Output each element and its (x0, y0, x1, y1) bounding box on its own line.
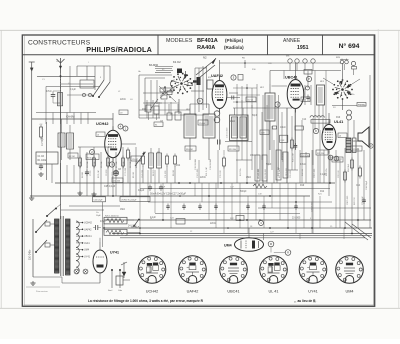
svg-text:C1 50pF: C1 50pF (42, 137, 44, 146)
svg-text:R11 0,1M: R11 0,1M (206, 167, 208, 176)
svg-text:UY41: UY41 (84, 256, 91, 259)
svg-text:R9 50k: R9 50k (130, 160, 132, 168)
svg-text:UCH42: UCH42 (146, 290, 158, 294)
svg-text:UCH42: UCH42 (96, 122, 108, 126)
svg-text:R3 0,1M: R3 0,1M (98, 170, 100, 178)
svg-text:C16 10.000: C16 10.000 (227, 127, 229, 138)
svg-text:10kΩ: 10kΩ (336, 159, 342, 161)
svg-text:R12: R12 (176, 165, 181, 167)
svg-text:C18 5.000: C18 5.000 (258, 168, 260, 178)
svg-text:K3: K3 (165, 90, 167, 92)
svg-text:50pF: 50pF (266, 164, 272, 166)
svg-text:C14: C14 (356, 185, 361, 187)
svg-text:R24 1kΩ: R24 1kΩ (348, 163, 350, 172)
svg-text:UCH42 Ec=100μF: UCH42 Ec=100μF (121, 199, 137, 201)
svg-text:(Philips): (Philips) (225, 38, 244, 43)
svg-text:220Ω: 220Ω (120, 99, 126, 101)
svg-text:C1 1R: C1 1R (38, 156, 45, 158)
svg-text:Rx: Rx (352, 94, 354, 96)
svg-text:RA40A: RA40A (197, 45, 215, 51)
svg-text:R13 50k: R13 50k (229, 149, 236, 151)
svg-text:47kΩ: 47kΩ (46, 91, 52, 93)
svg-text:500pF: 500pF (240, 191, 247, 193)
svg-text:N2: N2 (203, 56, 207, 60)
svg-text:R18 0,5M: R18 0,5M (293, 153, 295, 162)
svg-text:C14: C14 (302, 119, 307, 121)
svg-text:MS: MS (286, 56, 290, 58)
svg-text:R18 1M: R18 1M (302, 169, 304, 176)
svg-text:R23 150: R23 150 (354, 197, 356, 205)
svg-text:R1 100k: R1 100k (38, 160, 47, 162)
svg-text:C23 100: C23 100 (338, 170, 340, 178)
svg-text:R4 27k: R4 27k (112, 172, 114, 178)
svg-text:R3 50k: R3 50k (87, 160, 89, 168)
svg-text:UCH42: UCH42 (84, 222, 93, 225)
svg-text:M: M (270, 242, 272, 246)
svg-text:C18 20.000: C18 20.000 (265, 169, 267, 179)
svg-text:C11 200: C11 200 (165, 170, 167, 178)
svg-text:0,1μF: 0,1μF (150, 217, 157, 219)
svg-text:C13 10.000: C13 10.000 (210, 158, 212, 170)
svg-text:C25 0,1μF: C25 0,1μF (104, 185, 116, 188)
svg-text:C11 200: C11 200 (113, 180, 120, 182)
svg-text:500pF: 500pF (352, 141, 359, 143)
svg-text:R16 0,5M: R16 0,5M (278, 167, 280, 176)
svg-text:UL41: UL41 (84, 242, 90, 245)
svg-text:K1 K2: K1 K2 (173, 60, 181, 64)
svg-text:CA 6M: CA 6M (66, 115, 75, 119)
svg-text:220Ω: 220Ω (200, 177, 206, 179)
svg-text:(Radiola): (Radiola) (224, 45, 244, 50)
svg-text:50mA E=6,3V C26+C27 2×50μF: 50mA E=6,3V C26+C27 2×50μF (150, 193, 186, 196)
svg-text:R8 50k: R8 50k (123, 160, 125, 168)
svg-text:R13 50k: R13 50k (240, 169, 242, 176)
svg-text:UL41: UL41 (334, 120, 343, 124)
svg-text:UAF42: UAF42 (84, 228, 92, 231)
svg-text:C12 5.000: C12 5.000 (197, 168, 199, 178)
svg-text:UY41: UY41 (308, 290, 318, 294)
svg-text:R7 50k: R7 50k (116, 160, 118, 168)
svg-text:47kΩ: 47kΩ (300, 164, 306, 166)
svg-text:C10 47: C10 47 (132, 159, 138, 161)
svg-text:C: C (199, 99, 201, 103)
svg-text:PHILIPS/RADIOLA: PHILIPS/RADIOLA (86, 45, 152, 54)
svg-text:C7 5.000: C7 5.000 (125, 167, 127, 176)
svg-text:R2 50k: R2 50k (80, 160, 82, 168)
svg-text:C17 25: C17 25 (247, 99, 253, 101)
svg-text:ANNEE: ANNEE (283, 38, 301, 44)
svg-text:L3: L3 (97, 134, 99, 136)
svg-text:R6 27k: R6 27k (153, 170, 155, 176)
svg-text:C30 50μF: C30 50μF (366, 180, 368, 190)
svg-text:C22 5.000: C22 5.000 (314, 168, 316, 178)
svg-text:C9 5.000: C9 5.000 (142, 169, 144, 178)
svg-text:R20 25k: R20 25k (326, 169, 328, 176)
svg-text:C5 50: C5 50 (90, 170, 92, 176)
svg-text:R9 1M: R9 1M (173, 170, 175, 176)
svg-text:C9: C9 (120, 112, 122, 114)
svg-text:C15 100: C15 100 (220, 170, 222, 178)
svg-text:C25 0,5μF: C25 0,5μF (94, 200, 104, 202)
svg-text:C18: C18 (261, 132, 264, 134)
svg-text:10kΩ: 10kΩ (280, 127, 286, 129)
svg-text:MODELES: MODELES (166, 38, 193, 44)
svg-text:UBC41: UBC41 (84, 235, 92, 238)
svg-text:UBC41: UBC41 (227, 290, 239, 294)
svg-text:W: W (304, 89, 306, 91)
svg-text:C28 5.000: C28 5.000 (347, 195, 349, 205)
svg-text:47kΩ: 47kΩ (100, 221, 106, 223)
svg-text:R10 2M: R10 2M (186, 149, 193, 151)
svg-text:R2 1M: R2 1M (69, 156, 75, 158)
svg-text:10μF: 10μF (96, 215, 101, 217)
svg-text:1MΩ: 1MΩ (250, 155, 255, 157)
svg-text:2MΩ: 2MΩ (230, 121, 235, 123)
svg-text:UAF42: UAF42 (211, 74, 223, 78)
svg-text:R25 1.000Ω 3w: R25 1.000Ω 3w (105, 216, 119, 218)
svg-text:R21 25k: R21 25k (317, 153, 324, 155)
svg-text:R12: R12 (142, 109, 147, 111)
svg-text:R: R (287, 251, 289, 255)
svg-text:R19: R19 (300, 185, 305, 187)
svg-text:FRENAL: FRENAL (358, 103, 365, 106)
svg-text:BF401A: BF401A (197, 38, 218, 44)
svg-text:UAF42: UAF42 (187, 290, 199, 294)
svg-text:220Ω: 220Ω (210, 223, 216, 225)
svg-text:UM4: UM4 (84, 249, 90, 252)
svg-text:Secl: Secl (108, 290, 113, 292)
svg-text:R19: R19 (336, 117, 341, 119)
svg-text:0,1μF: 0,1μF (138, 189, 145, 192)
svg-text:23 L905: 23 L905 (292, 218, 301, 220)
svg-text:UM4: UM4 (224, 244, 232, 248)
svg-text:R2 2M: R2 2M (82, 172, 84, 178)
svg-text:N° 694: N° 694 (339, 42, 360, 50)
svg-text:.: . (317, 299, 318, 303)
svg-text:C14 50: C14 50 (199, 123, 205, 125)
svg-text:C20 20.000: C20 20.000 (283, 151, 285, 162)
svg-text:50pF: 50pF (252, 115, 258, 117)
svg-text:0,5μF: 0,5μF (160, 187, 166, 189)
svg-text:0,1μF: 0,1μF (70, 89, 77, 91)
svg-text:C29 50μF: C29 50μF (362, 195, 364, 205)
svg-text:0,1μF: 0,1μF (320, 174, 327, 176)
svg-text:1MΩ: 1MΩ (120, 209, 125, 211)
svg-text:UY41: UY41 (110, 251, 119, 255)
svg-text:C12 10.000: C12 10.000 (195, 158, 197, 170)
svg-text:R5 50k: R5 50k (101, 160, 103, 168)
svg-text:CONSTRUCTEURS: CONSTRUCTEURS (28, 39, 91, 46)
svg-text:R12: R12 (320, 191, 325, 193)
svg-text:R23 150: R23 150 (352, 149, 359, 151)
svg-text:Prise secteur: Prise secteur (36, 290, 48, 293)
svg-text:C21 200: C21 200 (290, 170, 292, 178)
svg-text:1951: 1951 (297, 45, 309, 51)
svg-text:R19: R19 (302, 99, 305, 101)
svg-text:La résistance de filtrage de 1: La résistance de filtrage de 1.000 ohms,… (88, 299, 204, 303)
svg-text:R5 1M: R5 1M (133, 172, 135, 178)
svg-text:R3 0,1M: R3 0,1M (87, 157, 95, 159)
svg-text:R4 50k: R4 50k (94, 160, 96, 168)
svg-text:UM4: UM4 (345, 290, 353, 294)
svg-text:S1: S1 (155, 124, 157, 126)
svg-text:P: P (308, 77, 310, 81)
svg-text:L6: L6 (339, 135, 341, 137)
svg-text:C24 1.200: C24 1.200 (301, 155, 310, 157)
svg-text:UL 41: UL 41 (269, 290, 279, 294)
svg-text:2MΩ: 2MΩ (246, 177, 251, 179)
svg-text:110-245v: 110-245v (29, 249, 32, 260)
svg-text:CR 36μF: CR 36μF (131, 227, 140, 229)
svg-text:C6 200: C6 200 (106, 169, 108, 176)
